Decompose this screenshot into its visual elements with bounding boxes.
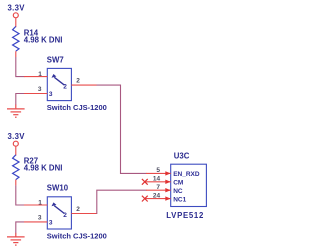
resistor R27 bottom stub — [15, 180, 17, 186]
svg-text:Switch CJS-1200: Switch CJS-1200 — [47, 103, 107, 112]
svg-text:SW10: SW10 — [47, 184, 69, 193]
svg-text:3: 3 — [49, 91, 53, 98]
no-connect X pin 14 — [142, 179, 148, 185]
svg-text:1: 1 — [38, 199, 42, 206]
resistor R27 — [13, 155, 19, 180]
SW7 pin 3 stub — [24, 93, 47, 95]
svg-text:2: 2 — [76, 206, 80, 213]
svg-text:3: 3 — [38, 86, 42, 93]
svg-text:SW7: SW7 — [47, 55, 64, 64]
svg-text:4.98 K DNI: 4.98 K DNI — [24, 164, 63, 173]
power symbol 3.3V (top) — [13, 13, 18, 18]
svg-text:7: 7 — [156, 184, 160, 191]
SW7 pin 2 stub — [71, 84, 96, 86]
svg-text:CM: CM — [173, 179, 183, 186]
resistor R14 bottom stub — [15, 51, 17, 57]
wire from R27 to SW10 pin1 — [16, 185, 25, 205]
svg-text:LVPE512: LVPE512 — [166, 211, 204, 220]
wire SW10 pin3 to ground — [16, 222, 24, 233]
wire SW7 pin2 to U3C pin5 — [97, 85, 147, 173]
svg-text:3: 3 — [49, 220, 53, 227]
SW10 pin 1 stub — [24, 204, 47, 206]
svg-text:3.3V: 3.3V — [8, 4, 26, 13]
resistor R14 — [13, 26, 19, 51]
svg-text:24: 24 — [153, 192, 161, 199]
SW10 pin 2 stub — [71, 213, 96, 215]
svg-text:5: 5 — [156, 167, 160, 174]
SW7 pin 1 stub — [24, 76, 47, 78]
wire from R14 to SW7 pin1 — [16, 57, 25, 77]
svg-text:NC1: NC1 — [173, 196, 186, 203]
svg-text:NC: NC — [173, 188, 183, 195]
ground (top) — [7, 105, 25, 118]
switch SW7 body — [47, 68, 71, 100]
power symbol 3.3V (bottom) — [13, 141, 18, 146]
switch SW10 body — [47, 197, 71, 229]
wire SW7 pin3 to ground — [16, 94, 24, 105]
ground (bottom) — [7, 233, 25, 245]
svg-text:U3C: U3C — [174, 151, 190, 160]
svg-text:3.3V: 3.3V — [8, 132, 26, 141]
svg-text:4.98 K DNI: 4.98 K DNI — [24, 35, 63, 44]
svg-text:3: 3 — [38, 215, 42, 222]
op-amp/buffer U3C body — [171, 164, 207, 206]
svg-text:14: 14 — [153, 176, 161, 183]
no-connect X pin 24 — [142, 196, 148, 202]
svg-text:EN_RXD: EN_RXD — [173, 171, 200, 178]
svg-text:Switch CJS-1200: Switch CJS-1200 — [47, 231, 107, 240]
wire SW10 pin2 to U3C pin7 — [97, 190, 147, 213]
U3C pin 7 stub — [146, 189, 171, 191]
svg-text:2: 2 — [76, 77, 80, 84]
U3C pin 5 stub — [146, 172, 171, 174]
svg-text:2: 2 — [63, 212, 67, 219]
SW10 pin 3 stub — [24, 221, 47, 223]
svg-text:2: 2 — [63, 84, 67, 91]
SW7 lever — [54, 77, 64, 85]
pin stub from power to R14 — [15, 18, 17, 27]
SW10 lever — [54, 206, 64, 214]
pin stub from power to R27 — [15, 147, 17, 156]
U3C pin 24 stub — [145, 198, 171, 200]
svg-text:1: 1 — [38, 71, 42, 78]
U3C pin 14 stub — [145, 181, 171, 183]
